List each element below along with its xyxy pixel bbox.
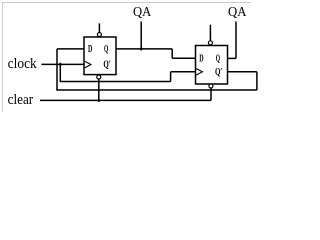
svg-text:Q′: Q′ — [103, 60, 111, 71]
wire Q1 step down — [171, 49, 173, 58]
wire into U2 D input — [172, 57, 195, 59]
wire line A clock distribution horizontal — [60, 81, 171, 83]
U1 clock input triangle — [85, 61, 91, 68]
wire clock branch vertical down to line A — [59, 64, 61, 81]
svg-text:QA: QA — [228, 5, 247, 20]
wire QA2 vertical to label — [235, 22, 237, 59]
wire clock step up to U2 — [170, 72, 172, 82]
U1 clear bubble — [97, 75, 101, 79]
wire U2 Q output horizontal — [228, 57, 237, 59]
wire U1 D input horizontal — [57, 48, 84, 50]
node clock branch junction dot — [58, 62, 62, 66]
wire clear input horizontal — [40, 99, 211, 101]
node QA1 junction dot — [139, 47, 143, 51]
svg-text:clear: clear — [8, 92, 34, 108]
svg-text:D: D — [199, 53, 203, 64]
wire U1 clear vertical — [98, 79, 100, 100]
wire clock input to U1 — [41, 63, 84, 65]
wire into U2 clock input — [171, 71, 196, 73]
svg-text:QA: QA — [133, 5, 152, 20]
frame border left — [2, 2, 4, 112]
flip-flop U2 box — [196, 46, 228, 85]
U2 clock input triangle — [196, 69, 202, 76]
flip-flop U1 box — [84, 37, 116, 75]
wire U2 Q' wrap vertical — [256, 72, 258, 90]
U2 preset bubble — [208, 41, 212, 45]
svg-text:Q: Q — [104, 44, 108, 55]
svg-text:Q′: Q′ — [215, 67, 223, 78]
wire QA1 vertical to label — [140, 22, 142, 49]
svg-text:Q: Q — [216, 54, 220, 65]
U2 clear bubble — [209, 84, 213, 88]
svg-text:D: D — [88, 44, 92, 55]
wire U1 Q output horizontal — [116, 48, 172, 50]
U1 preset stub wire — [98, 23, 100, 32]
wire U2 Q' output horizontal — [228, 71, 257, 73]
wire U2 clear vertical — [210, 88, 212, 101]
svg-text:clock: clock — [8, 56, 38, 72]
U1 preset bubble — [97, 33, 101, 37]
U2 preset stub wire — [209, 25, 211, 41]
wire D1 feedback vertical down to line B — [56, 49, 58, 90]
wire line B feedback horizontal from U2 Q' — [56, 89, 257, 91]
frame border top — [2, 2, 251, 4]
node clear junction dot — [97, 98, 101, 102]
